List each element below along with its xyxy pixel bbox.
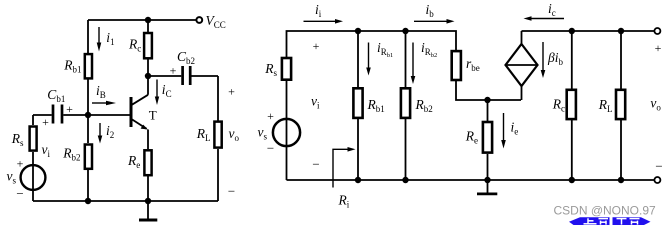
wire bottom rail right [287, 179, 655, 181]
node dot R_b2 bottom [85, 198, 91, 204]
svg-text:+: + [267, 109, 274, 123]
wire bottom rail left [33, 200, 218, 202]
ground stem right [487, 180, 489, 193]
wire R_L branch bottom [217, 149, 219, 201]
banner glyphs next [617, 219, 640, 225]
resistor R_s (right) [282, 58, 291, 80]
arrow i_Rb1 [368, 43, 370, 70]
resistor r_be [452, 51, 461, 80]
wire R_b1 branch upper [87, 20, 89, 53]
wire R_b1 branch [357, 31, 359, 87]
wire R_s bottom through v_s [32, 152, 34, 201]
wire r_be bottom [456, 81, 521, 100]
capacitor C_b1 [53, 105, 62, 124]
node dot collector [145, 73, 151, 79]
arrow i_c [531, 18, 564, 20]
wire R_b2 to bottom rail [87, 170, 89, 201]
wire R_e bottom [147, 176, 149, 201]
banner glyphs prev [584, 218, 609, 224]
source v_s (left) [21, 165, 46, 190]
arrow i_b [414, 20, 447, 22]
wire top rail 2 [522, 30, 655, 32]
transistor T [131, 95, 148, 129]
dependent source beta i_b diamond [506, 44, 538, 86]
capacitor C_b2 [183, 66, 191, 85]
arrow i_e [503, 113, 505, 142]
transistor emitter arrowhead [141, 125, 148, 130]
resistor R_b2 (right) [401, 88, 410, 118]
node dots right circuit [355, 28, 361, 34]
svg-text:T: T [149, 107, 157, 122]
svg-text:+: + [313, 39, 320, 53]
wire C_b2 left [148, 75, 181, 77]
watermark banner prev [569, 217, 610, 225]
wire R_b2 branch [405, 31, 407, 87]
wire v_s branch [286, 81, 288, 180]
wire R_L branch right [620, 31, 622, 89]
arrow iC [156, 80, 158, 98]
resistor R_s (left) [30, 127, 37, 151]
svg-text:−: − [16, 186, 23, 201]
wire R_e branch [487, 100, 489, 121]
arrow beta i_b [542, 42, 544, 72]
resistor R_e (left) [144, 150, 151, 175]
arrow i1 [98, 27, 100, 44]
wire R_c bottom / collector [147, 60, 149, 95]
resistor R_L (left) [214, 122, 221, 148]
wire C_b1 right [63, 114, 88, 116]
resistor R_b1 (right) [353, 88, 362, 118]
arrow i_Rb2 [412, 43, 414, 79]
arrow i2 [99, 123, 101, 138]
resistor R_L (right) [616, 90, 625, 119]
wire R_c branch [571, 31, 573, 89]
resistor R_e (right) [483, 122, 492, 153]
svg-text:−: − [267, 141, 274, 156]
svg-text:CSDN @NONO.97: CSDN @NONO.97 [554, 204, 657, 218]
terminal V_CC [196, 17, 202, 23]
svg-text:−: − [228, 183, 235, 198]
wire emitter [147, 130, 149, 150]
node dot emitter bottom [145, 198, 151, 204]
svg-text:+: + [170, 64, 177, 78]
svg-text:+: + [66, 102, 73, 116]
source v_s (right) [273, 119, 300, 146]
wire top rail left [88, 19, 197, 21]
svg-text:−: − [655, 158, 662, 173]
watermark banner next [613, 217, 651, 225]
resistor R_c (left) [144, 33, 152, 58]
wire diamond top [521, 31, 523, 44]
wire R_s top corner [32, 115, 34, 125]
ground bar left [139, 219, 157, 222]
ground bar right [477, 192, 497, 195]
svg-text:+: + [655, 41, 662, 55]
terminal output top [654, 28, 660, 34]
arrow i_i [304, 20, 336, 22]
wire diamond bottom [521, 86, 523, 100]
wire top rail 1 [287, 31, 457, 57]
arrow iB [92, 102, 108, 104]
wire R_L branch top [217, 76, 219, 121]
wire base [88, 114, 130, 116]
terminal output bottom [654, 177, 660, 183]
resistor R_c (right) [567, 90, 576, 119]
svg-text:+: + [17, 157, 24, 171]
svg-text:+: + [228, 85, 235, 99]
resistor R_b2 (left) [85, 145, 92, 169]
wire C_b1 left [33, 114, 52, 116]
svg-text:−: − [312, 157, 319, 172]
svg-text:+: + [42, 115, 49, 129]
diamond middle line [506, 64, 538, 66]
node dot top rail [145, 17, 151, 23]
node dot base [85, 112, 91, 118]
wire R_c top [147, 20, 149, 32]
marker R_i [333, 149, 349, 187]
wire R_b1 to base node [87, 80, 89, 144]
wire C_b2 right [192, 75, 219, 77]
ground stem left [147, 201, 149, 219]
resistor R_b1 (left) [85, 54, 92, 78]
